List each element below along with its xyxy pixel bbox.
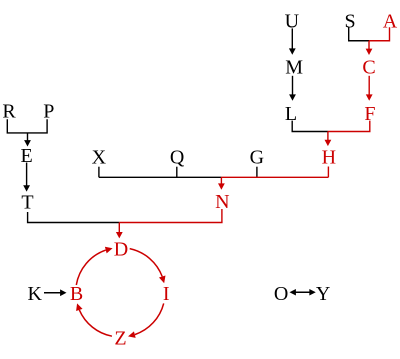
bracket L-F <box>292 121 370 132</box>
svg-text:C: C <box>362 56 375 78</box>
arc arrow Z->B <box>76 303 112 336</box>
svg-text:P: P <box>43 101 54 123</box>
svg-text:L: L <box>285 103 297 125</box>
svg-text:X: X <box>92 146 107 168</box>
arrow SA->C <box>366 41 373 55</box>
svg-text:D: D <box>114 238 128 260</box>
svg-text:S: S <box>344 11 355 33</box>
svg-text:K: K <box>27 283 42 305</box>
svg-text:T: T <box>21 192 33 214</box>
arrow K->B <box>44 289 67 296</box>
svg-text:A: A <box>383 11 398 33</box>
svg-text:M: M <box>285 56 303 78</box>
arrow M->L <box>289 76 296 101</box>
svg-text:Y: Y <box>316 283 330 305</box>
arrow O<->Y <box>290 289 316 295</box>
arrow U->M <box>289 28 296 54</box>
svg-text:O: O <box>274 283 288 305</box>
svg-text:B: B <box>70 283 83 305</box>
svg-text:I: I <box>163 283 170 305</box>
arrow LF->H <box>325 132 332 147</box>
svg-text:Z: Z <box>114 328 126 350</box>
arrow C->F <box>366 76 373 101</box>
bracket X-Q-G-H <box>99 167 329 178</box>
arrow E->T <box>23 163 30 192</box>
bracket R-P <box>7 119 47 133</box>
svg-text:Q: Q <box>170 146 185 168</box>
svg-text:G: G <box>250 146 264 168</box>
arrow TN->D <box>116 223 123 239</box>
arc arrow B->D <box>76 247 112 285</box>
svg-text:R: R <box>2 101 16 123</box>
arc arrow I->Z <box>128 303 164 337</box>
svg-text:H: H <box>322 146 336 168</box>
arc arrow D->I <box>130 249 166 284</box>
arrow RP->E <box>24 133 31 147</box>
arrow XQGH->N <box>218 177 225 190</box>
bracket S-A <box>349 27 390 40</box>
bracket T-N <box>28 209 222 223</box>
